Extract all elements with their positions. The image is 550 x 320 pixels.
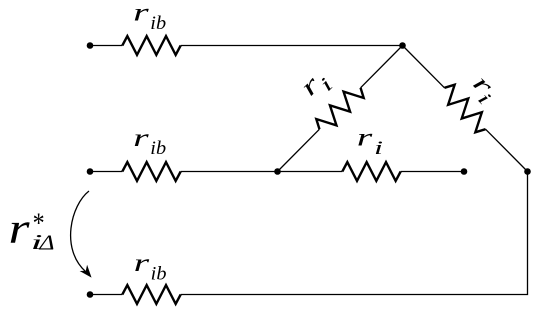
- svg-text:i: i: [374, 138, 383, 159]
- svg-text:r: r: [133, 0, 149, 27]
- svg-text:r: r: [9, 206, 30, 253]
- svg-text:r: r: [134, 250, 150, 277]
- svg-text:ib: ib: [150, 13, 166, 34]
- svg-text:r: r: [133, 125, 149, 152]
- svg-text:ib: ib: [150, 138, 166, 159]
- svg-text:r: r: [357, 124, 373, 151]
- svg-text:ib: ib: [151, 263, 167, 284]
- svg-text:Δ: Δ: [38, 230, 54, 254]
